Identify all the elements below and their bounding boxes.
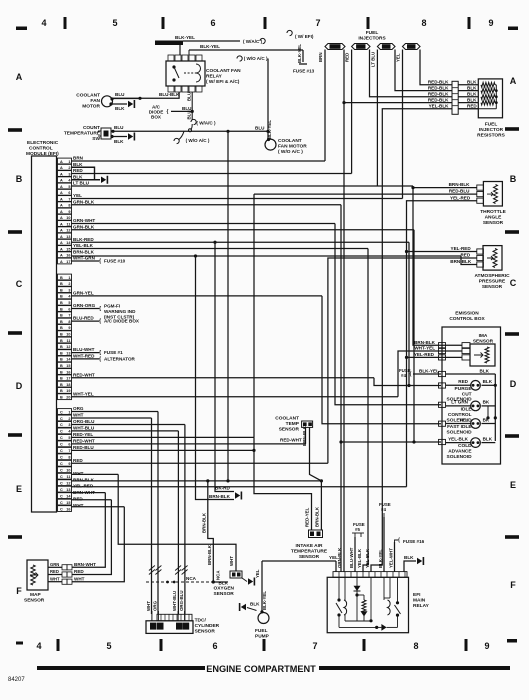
svg-text:RED-BLK: RED-BLK [428,92,449,97]
svg-text:6: 6 [210,18,215,28]
svg-text:TEMPERATURE: TEMPERATURE [64,131,101,137]
svg-text:PRESSURE: PRESSURE [479,279,506,285]
svg-text:9: 9 [484,641,489,651]
svg-text:BRN-BLK: BRN-BLK [73,249,95,254]
svg-text:C: C [60,430,63,434]
svg-text:WHT: WHT [50,576,60,581]
svg-text:#1: #1 [333,44,338,49]
svg-text:RED-BLU: RED-BLU [73,445,94,450]
svg-text:6: 6 [212,641,217,651]
svg-text:ADVANCE: ADVANCE [448,449,472,455]
svg-text:SENSOR: SENSOR [214,591,235,597]
svg-text:A: A [60,260,63,264]
svg-text:RELAY: RELAY [206,74,223,80]
svg-text:( W/ EFI & A/C): ( W/ EFI & A/C) [206,79,240,85]
svg-text:ORG-BLU: ORG-BLU [73,419,95,424]
svg-text:ANGLE: ANGLE [485,215,503,221]
svg-text:FAN: FAN [90,98,100,104]
svg-text:SENSOR: SENSOR [279,427,300,433]
svg-text:A: A [60,204,63,208]
svg-text:YEL-WHT: YEL-WHT [389,548,394,568]
svg-text:RED-WHT: RED-WHT [73,438,95,443]
svg-text:RED: RED [50,569,59,574]
svg-text:SW: SW [92,136,100,142]
svg-text:WHT-BLU: WHT-BLU [73,426,95,431]
svg-text:RED-YEL: RED-YEL [73,432,93,437]
svg-text:YEL-BLK: YEL-BLK [73,243,94,248]
svg-text:SENSOR: SENSOR [483,220,504,226]
svg-text:BLK: BLK [467,97,477,102]
svg-text:16: 16 [66,254,70,258]
svg-text:8: 8 [68,320,70,324]
svg-text:ORG-BLU: ORG-BLU [179,591,184,612]
svg-text:BRN-BLK: BRN-BLK [414,340,436,345]
svg-text:B: B [510,174,517,184]
svg-text:EFI: EFI [413,592,421,598]
svg-text:WHT-RED: WHT-RED [73,354,95,359]
svg-text:YEL-BLK: YEL-BLK [357,548,362,568]
svg-text:IDLE: IDLE [461,407,473,413]
svg-text:WARNING IND: WARNING IND [104,309,136,314]
svg-text:RED-WHT: RED-WHT [280,438,302,443]
svg-text:BLK: BLK [483,379,493,384]
svg-text:RELAY: RELAY [413,603,430,609]
svg-text:B: B [60,396,63,400]
svg-text:A/C DIODE BOX: A/C DIODE BOX [104,319,140,324]
svg-text:WHT-YEL: WHT-YEL [414,346,435,351]
svg-text:PGM-FI: PGM-FI [104,304,120,309]
svg-text:BLK-YEL: BLK-YEL [419,369,439,374]
svg-text:B: B [60,351,63,355]
svg-text:COOLANT: COOLANT [275,416,299,422]
svg-text:INTAKE AIR: INTAKE AIR [296,543,323,549]
svg-text:B: B [60,377,63,381]
svg-text:11: 11 [66,222,70,226]
svg-text:#4: #4 [409,44,414,49]
svg-text:20: 20 [66,396,70,400]
svg-text:A: A [60,235,63,239]
svg-text:LT BLU: LT BLU [73,181,90,186]
svg-text:WHT-BLU: WHT-BLU [172,591,177,611]
svg-text:BLK-YEL: BLK-YEL [175,35,195,40]
svg-text:ALTERNATOR: ALTERNATOR [104,357,136,362]
svg-text:RED-WHT: RED-WHT [73,372,95,377]
svg-text:18: 18 [66,383,70,387]
svg-text:( W/A/C ): ( W/A/C ) [196,121,216,126]
svg-text:GRN-WHT: GRN-WHT [73,218,95,223]
svg-text:WHT: WHT [229,556,234,566]
svg-text:A: A [60,197,63,201]
svg-text:C: C [60,462,63,466]
svg-text:RESISTORS: RESISTORS [477,133,505,139]
svg-text:MAIN: MAIN [413,598,426,604]
svg-text:12: 12 [66,481,70,485]
svg-text:B: B [60,314,63,318]
svg-text:BLK: BLK [467,80,477,85]
svg-text:E: E [510,480,516,490]
svg-text:YEL: YEL [459,417,468,422]
svg-text:9: 9 [68,462,70,466]
svg-text:YEL-BLK: YEL-BLK [429,104,450,109]
svg-text:BLK: BLK [73,174,83,179]
svg-text:BLU-RED: BLU-RED [73,316,94,321]
svg-text:10: 10 [66,333,70,337]
svg-text:WHT-GRN: WHT-GRN [73,256,96,261]
svg-text:RED: RED [458,379,468,384]
svg-text:B: B [60,370,63,374]
svg-text:8: 8 [68,204,70,208]
svg-text:FUEL: FUEL [255,628,268,634]
svg-text:16: 16 [66,507,70,511]
svg-text:BRN-BLK: BRN-BLK [207,544,212,565]
svg-text:BLK-RED: BLK-RED [73,237,94,242]
svg-text:YEL-RED: YEL-RED [414,352,435,357]
svg-text:C: C [60,417,63,421]
svg-text:B: B [60,339,63,343]
svg-text:BLK: BLK [404,555,414,560]
svg-text:TEMP: TEMP [286,421,300,427]
svg-text:ORG: ORG [153,600,158,611]
svg-text:BRN: BRN [318,52,323,62]
svg-text:C: C [60,410,63,414]
svg-text:C: C [60,507,63,511]
svg-text:7: 7 [315,18,320,28]
svg-text:CUT: CUT [462,391,472,397]
svg-text:B: B [60,295,63,299]
svg-text:5: 5 [68,185,70,189]
svg-text:BRN-BLK: BRN-BLK [315,506,320,527]
svg-text:RED: RED [73,168,83,173]
svg-text:FUSE #1: FUSE #1 [104,350,123,355]
svg-text:C: C [60,488,63,492]
svg-text:BLK: BLK [73,162,83,167]
svg-text:FUEL: FUEL [485,122,498,128]
svg-text:BLK-YEL: BLK-YEL [262,591,267,610]
svg-text:B: B [60,333,63,337]
svg-text:B: B [60,320,63,324]
svg-text:RED: RED [345,53,350,62]
svg-text:17: 17 [66,377,70,381]
svg-text:B: B [60,364,63,368]
svg-text:5: 5 [68,436,70,440]
svg-text:ORG: ORG [73,406,84,411]
svg-text:13: 13 [66,351,70,355]
svg-text:C: C [16,279,23,289]
svg-text:3: 3 [68,172,70,176]
svg-text:BLK: BLK [467,92,477,97]
svg-text:RED-BLK: RED-BLK [428,97,449,102]
svg-text:9: 9 [488,18,493,28]
svg-text:#4: #4 [401,373,406,378]
svg-text:GRN-BLK: GRN-BLK [337,547,342,568]
svg-text:D: D [510,379,517,389]
svg-text:RED-YEL: RED-YEL [305,507,310,527]
svg-text:6: 6 [68,191,70,195]
svg-text:( W/O A/C ): ( W/O A/C ) [244,56,268,61]
svg-text:2: 2 [68,417,70,421]
svg-text:C: C [60,456,63,460]
svg-text:BLK: BLK [467,85,477,90]
svg-text:5: 5 [112,18,117,28]
svg-text:B: B [60,345,63,349]
svg-text:GRN-YEL: GRN-YEL [73,291,94,296]
svg-text:BLU: BLU [255,126,265,131]
svg-text:ATMOSPHERIC: ATMOSPHERIC [474,273,510,279]
svg-text:GRN-ORG: GRN-ORG [73,303,96,308]
svg-text:A: A [60,191,63,195]
svg-text:WHT-YEL: WHT-YEL [73,391,94,396]
svg-text:7: 7 [68,314,70,318]
svg-text:BK: BK [483,400,490,405]
svg-text:COUNT: COUNT [83,125,100,131]
svg-text:WHT: WHT [73,471,84,476]
svg-text:YEL-RED: YEL-RED [451,246,472,251]
svg-text:13: 13 [66,488,70,492]
svg-text:A: A [60,185,63,189]
svg-text:BRN-BLK: BRN-BLK [302,425,307,446]
svg-text:COOLANT: COOLANT [76,93,100,99]
svg-text:BOX: BOX [151,115,162,120]
svg-text:FUSE #10: FUSE #10 [104,259,126,264]
svg-text:A: A [60,160,63,164]
svg-text:YEL-BLK: YEL-BLK [365,548,370,568]
svg-text:SENSOR: SENSOR [24,598,45,604]
svg-text:BLK: BLK [483,436,493,441]
svg-text:BLK: BLK [219,581,229,586]
svg-text:BLU: BLU [114,125,124,130]
svg-text:BLK-YEL: BLK-YEL [297,44,302,63]
svg-text:NCA: NCA [216,570,221,580]
svg-text:BLU-WHT: BLU-WHT [349,547,354,568]
svg-text:GRN-BLK: GRN-BLK [73,199,95,204]
svg-text:WHT: WHT [73,413,84,418]
svg-text:PURGE: PURGE [455,386,473,392]
svg-text:BLK: BLK [480,369,490,374]
svg-text:A: A [60,166,63,170]
svg-text:A: A [60,179,63,183]
svg-text:PUMP: PUMP [255,634,270,640]
svg-text:2: 2 [68,166,70,170]
svg-text:THROTTLE: THROTTLE [480,209,506,215]
svg-text:MAP: MAP [30,592,41,598]
svg-text:COOLANT FAN: COOLANT FAN [206,68,241,74]
svg-text:INJECTOR: INJECTOR [479,127,504,133]
svg-text:A: A [60,222,63,226]
svg-text:RED: RED [73,458,83,463]
svg-text:COLD: COLD [458,443,472,449]
svg-text:B: B [60,276,63,280]
svg-text:FUSE #16: FUSE #16 [403,539,425,544]
svg-text:3: 3 [68,423,70,427]
svg-text:GRN: GRN [50,562,59,567]
svg-text:EMISSION: EMISSION [455,311,479,317]
svg-text:F: F [16,586,22,596]
svg-text:( W/O A/C ): ( W/O A/C ) [278,149,303,155]
svg-text:11: 11 [66,475,70,479]
svg-text:C: C [60,436,63,440]
svg-text:C: C [60,481,63,485]
svg-text:10: 10 [66,216,70,220]
svg-text:BRN-BLK: BRN-BLK [209,494,231,499]
svg-text:8: 8 [413,641,418,651]
svg-text:WHT: WHT [74,576,85,581]
svg-text:FAN MOTOR: FAN MOTOR [278,144,307,150]
svg-text:BLK: BLK [115,106,125,111]
svg-text:7: 7 [68,449,70,453]
svg-text:RED-BLU: RED-BLU [449,189,470,194]
svg-text:C: C [60,494,63,498]
svg-text:CONTROL BOX: CONTROL BOX [449,316,485,322]
svg-text:SOLENOID: SOLENOID [447,430,473,436]
svg-text:TDC/: TDC/ [195,618,207,624]
svg-text:MODULE (EFI): MODULE (EFI) [26,151,59,157]
svg-text:A: A [60,210,63,214]
svg-text:BLU-BLK: BLU-BLK [159,92,180,97]
svg-text:C: C [60,475,63,479]
svg-text:INJECTORS: INJECTORS [358,36,386,42]
svg-text:YEL-RED: YEL-RED [450,195,471,200]
svg-text:5: 5 [106,641,111,651]
svg-text:15: 15 [66,501,70,505]
svg-text:#2: #2 [359,44,364,49]
svg-text:BLU: BLU [182,106,192,111]
svg-text:#5: #5 [355,527,360,532]
svg-text:9: 9 [68,326,70,330]
svg-text:WHT: WHT [146,601,151,611]
svg-text:C: C [60,423,63,427]
svg-text:RED-BLK: RED-BLK [428,85,449,90]
svg-text:BLK: BLK [250,602,260,607]
svg-text:6: 6 [68,443,70,447]
svg-text:C: C [60,443,63,447]
svg-text:B: B [60,358,63,362]
svg-text:12: 12 [66,345,70,349]
svg-text:1: 1 [68,276,70,280]
svg-text:15: 15 [66,364,70,368]
svg-text:OXYGEN: OXYGEN [214,586,235,592]
svg-text:YEL-BLK: YEL-BLK [448,436,469,441]
svg-text:IMA: IMA [479,333,488,339]
svg-text:B: B [60,307,63,311]
svg-text:BLK-YEL: BLK-YEL [267,120,272,139]
svg-text:ELECTRONIC: ELECTRONIC [27,140,59,146]
svg-text:A: A [510,76,517,86]
svg-text:( W/ EFI): ( W/ EFI) [295,34,314,39]
svg-text:F: F [510,580,516,590]
svg-text:YEL: YEL [255,569,260,578]
svg-text:BRN-BLK: BRN-BLK [202,512,207,533]
svg-text:WHT: WHT [73,503,84,508]
svg-text:BK-RD: BK-RD [215,486,230,491]
svg-text:D: D [16,381,23,391]
svg-text:BLU: BLU [115,92,125,97]
svg-text:12: 12 [66,229,70,233]
svg-text:11: 11 [66,339,70,343]
svg-text:CONTROL: CONTROL [29,146,53,152]
svg-text:C: C [60,501,63,505]
svg-text:LT BLU: LT BLU [370,52,375,67]
svg-text:A: A [60,247,63,251]
svg-text:FUSE #13: FUSE #13 [293,69,315,74]
svg-text:RED: RED [74,569,84,574]
svg-text:SENSOR: SENSOR [482,284,503,290]
svg-text:NCA: NCA [186,576,197,581]
svg-text:B: B [60,383,63,387]
svg-text:16: 16 [66,370,70,374]
svg-text:#4: #4 [381,507,386,512]
svg-text:BRN: BRN [73,156,84,161]
svg-text:FUEL: FUEL [366,30,379,36]
svg-text:SENSOR: SENSOR [195,629,216,635]
svg-text:BRN-WHT: BRN-WHT [74,562,96,567]
svg-text:8: 8 [421,18,426,28]
svg-text:A: A [60,216,63,220]
svg-text:BLK: BLK [114,139,124,144]
svg-text:2: 2 [68,282,70,286]
svg-text:15: 15 [66,247,70,251]
svg-text:RED-BLK: RED-BLK [428,80,449,85]
svg-text:3: 3 [68,288,70,292]
svg-text:GRN-BLK: GRN-BLK [73,224,95,229]
svg-text:BLU: BLU [187,110,192,119]
svg-text:C: C [510,278,517,288]
svg-text:B: B [60,282,63,286]
svg-text:C: C [60,469,63,473]
svg-text:9: 9 [68,210,70,214]
svg-text:5: 5 [68,301,70,305]
svg-text:7: 7 [312,641,317,651]
svg-text:4: 4 [36,641,41,651]
svg-text:7: 7 [68,197,70,201]
svg-text:YEL: YEL [396,53,401,62]
svg-text:{: { [398,538,400,544]
svg-text:COOLANT: COOLANT [278,138,302,144]
svg-text:LT GRN: LT GRN [451,400,468,405]
svg-text:A: A [60,229,63,233]
svg-text:B: B [16,174,23,184]
svg-text:13: 13 [66,235,70,239]
svg-text:84207: 84207 [8,677,25,683]
svg-text:19: 19 [66,389,70,393]
svg-text:B: B [60,326,63,330]
svg-text:TEMPERATURE: TEMPERATURE [291,549,328,555]
svg-text:BLK-YEL: BLK-YEL [200,44,220,49]
svg-text:17: 17 [66,260,70,264]
svg-text:CYLINDER: CYLINDER [195,623,220,629]
svg-text:A: A [60,172,63,176]
svg-text:RED: RED [467,104,477,109]
svg-text:1: 1 [68,160,70,164]
svg-text:FAST IDLE: FAST IDLE [447,424,472,430]
svg-text:YEL: YEL [73,193,82,198]
svg-text:A: A [60,254,63,258]
svg-text:{: { [410,372,412,378]
svg-text:{: { [167,109,169,115]
svg-text:( W/O A/C ): ( W/O A/C ) [186,138,210,143]
svg-text:BLU-WHT: BLU-WHT [73,347,95,352]
svg-text:C: C [60,449,63,453]
svg-text:10: 10 [66,469,70,473]
svg-text:#3: #3 [384,44,389,49]
svg-text:8: 8 [68,456,70,460]
svg-text:SOLENOID: SOLENOID [447,454,473,460]
svg-text:1: 1 [68,410,70,414]
svg-text:ENGINE COMPARTMENT: ENGINE COMPARTMENT [206,664,316,674]
svg-text:BRN-BLK: BRN-BLK [450,259,472,264]
svg-text:B: B [60,389,63,393]
svg-text:BLU: BLU [187,92,192,101]
svg-text:6: 6 [68,307,70,311]
